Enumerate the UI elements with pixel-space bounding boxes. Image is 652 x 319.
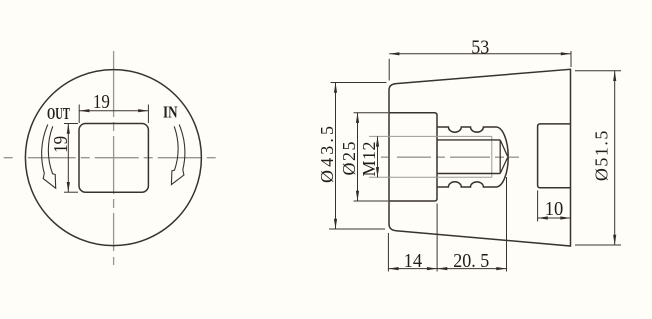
dimension 14 and 20.5: extension lines <box>387 233 389 272</box>
svg-text:14: 14 <box>404 251 423 272</box>
dimension 19 horizontal: dim line <box>79 110 148 112</box>
dimension 53: extension lines <box>388 59 390 81</box>
dimension 19 horizontal: extension lines <box>78 105 80 124</box>
thread end (thin) <box>491 136 493 177</box>
dimension 19 vertical: extension lines <box>64 123 78 125</box>
rotation arrow right <box>171 125 184 185</box>
dimension 20.5: dim line <box>437 268 506 270</box>
square boss <box>79 124 148 193</box>
rotation arrow left <box>42 125 56 189</box>
svg-text:M12: M12 <box>359 142 379 177</box>
square hole in right face <box>538 124 571 188</box>
body cone outline <box>389 69 571 246</box>
dimension 10: extension line <box>537 191 539 222</box>
dimension 19 vertical: dim line <box>67 124 69 193</box>
horizontal centerline <box>381 156 519 158</box>
body circle <box>25 70 201 246</box>
svg-text:IN: IN <box>163 102 178 121</box>
dimension D25: extension lines <box>354 112 389 114</box>
dimension D43.5: dim line <box>335 83 337 230</box>
svg-text:20. 5: 20. 5 <box>453 251 489 272</box>
dimension D25: dim line <box>357 113 359 201</box>
boss cylinder <box>389 113 437 201</box>
dimension 53: dim line <box>389 53 571 55</box>
svg-text:10: 10 <box>545 199 564 220</box>
dimension 14: dim line <box>388 268 437 270</box>
svg-text:53: 53 <box>471 37 489 58</box>
thread body (thick) lines <box>437 139 500 141</box>
thread end chamfer <box>500 140 507 174</box>
thread major (thin) lines <box>369 135 492 137</box>
dimension 10: dim line <box>538 217 571 219</box>
svg-text:OUT: OUT <box>47 104 70 123</box>
vertical centerline <box>113 51 115 265</box>
horizontal centerline <box>4 157 221 159</box>
svg-text:Ø51.5: Ø51.5 <box>591 131 611 182</box>
dimension D51.5: extension lines <box>575 70 621 72</box>
stud grooved outer profile <box>437 127 508 187</box>
svg-text:19: 19 <box>93 92 110 113</box>
dimension M12: dim line <box>377 136 379 177</box>
dimension D51.5: dim line <box>614 71 616 245</box>
svg-text:Ø25: Ø25 <box>339 142 359 176</box>
dimension D43.5: extension lines <box>331 82 387 84</box>
svg-text:Ø43.5: Ø43.5 <box>317 126 337 183</box>
svg-text:19: 19 <box>51 136 72 153</box>
